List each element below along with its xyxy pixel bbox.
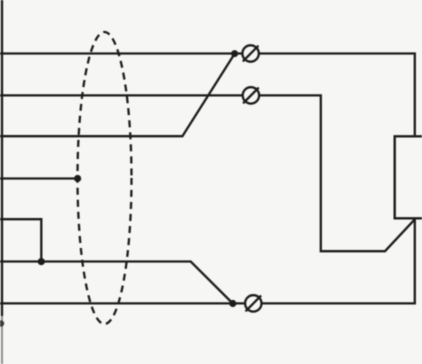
wire W6 (sixth wire with diagonal down to junction J4) [0,262,233,304]
wire W4 (fourth wire, left edge to shield) [0,177,78,179]
wire W7b (terminal T3 to connector box bottom pin) [262,219,415,303]
junction dot J2 (wire W4 to cable shield) [74,175,81,182]
junction dot J4 (wire W6 / wire W7) [229,300,236,307]
cable shield (dashed ellipse) [78,32,132,324]
wire W7 (bottom wire, left edge to terminal T3) [0,302,245,304]
junction dot J3 (wire W5 / wire W6) [38,258,45,265]
wire W2 (second wire, left edge to terminal T2) [0,94,243,96]
wire W1 (top wire, left edge to terminal T1) [0,52,242,54]
terminal T1 (slashed circle) [242,45,258,61]
wire W1b (terminal T1 to connector box top pin) [259,54,415,136]
wire W2b (terminal T2 to connector box bottom pin) [259,95,415,251]
terminal T3 (slashed circle) [245,295,261,311]
wire W5 (fifth wire, short stub down to wire W6) [0,219,41,261]
terminal T2 (slashed circle) [243,87,259,103]
left border bus line [0,0,4,364]
junction dot J1 (wire W1 / wire W3 diagonal) [231,50,238,57]
wire W3 (third wire with diagonal up to junction J1) [0,54,235,137]
connector box (clipped at right edge) [395,136,422,218]
